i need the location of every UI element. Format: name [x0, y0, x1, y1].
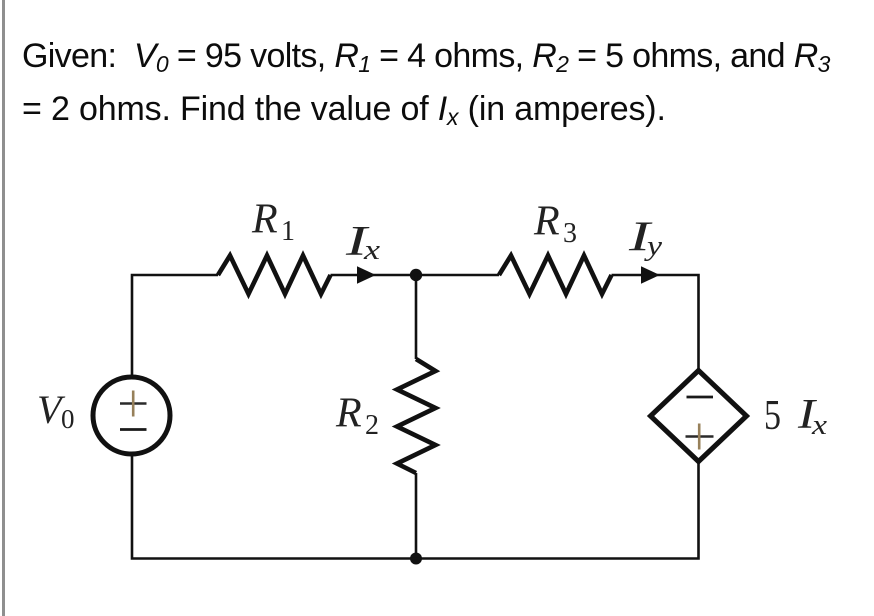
- svg-text:x: x: [811, 410, 828, 441]
- svg-text:R: R: [251, 197, 278, 243]
- svg-text:R: R: [335, 391, 362, 437]
- svg-text:5: 5: [764, 393, 781, 439]
- svg-text:3: 3: [563, 218, 577, 249]
- resistor R3: [499, 256, 612, 295]
- svg-text:x: x: [363, 235, 381, 266]
- label R3: [533, 199, 577, 250]
- problem statement text: [22, 30, 830, 136]
- resistor R1: [218, 256, 331, 295]
- node A (top junction dot): [410, 269, 422, 281]
- diamond plus sign: [686, 424, 714, 450]
- label Ix: [345, 219, 381, 266]
- label R1: [251, 197, 295, 248]
- svg-text:y: y: [643, 231, 662, 262]
- label Iy: [628, 215, 663, 263]
- V0 minus sign: [120, 428, 147, 431]
- wire V0 bottom to bottom-left corner: [132, 456, 416, 559]
- wire R1 to node A: [331, 274, 417, 277]
- label R2: [335, 391, 379, 442]
- label 5 Ix (dependent source value): [764, 392, 828, 441]
- voltage source V0: [93, 377, 170, 454]
- svg-text:0: 0: [61, 404, 75, 434]
- V0 plus sign: [120, 391, 147, 417]
- middle wire node A to R2: [415, 275, 418, 359]
- svg-text:R: R: [533, 199, 560, 245]
- svg-text:1: 1: [281, 216, 295, 247]
- wire node A to R3: [416, 274, 499, 277]
- bottom wire node B to bottom-right corner: [416, 461, 699, 559]
- svg-text:2: 2: [365, 410, 379, 441]
- label V0: [37, 387, 75, 434]
- current arrow Iy: [641, 266, 660, 284]
- wire R2 to node B: [415, 473, 418, 559]
- dependent source (diamond): [651, 371, 747, 462]
- wire top-left (V0 top to R1): [132, 275, 218, 377]
- resistor R2: [397, 359, 436, 473]
- wire R3 to top-right corner: [612, 275, 699, 371]
- node B (bottom junction dot): [410, 553, 422, 565]
- current arrow Ix: [357, 266, 376, 284]
- left page rule: [2, 0, 5, 616]
- diamond minus sign: [687, 396, 714, 399]
